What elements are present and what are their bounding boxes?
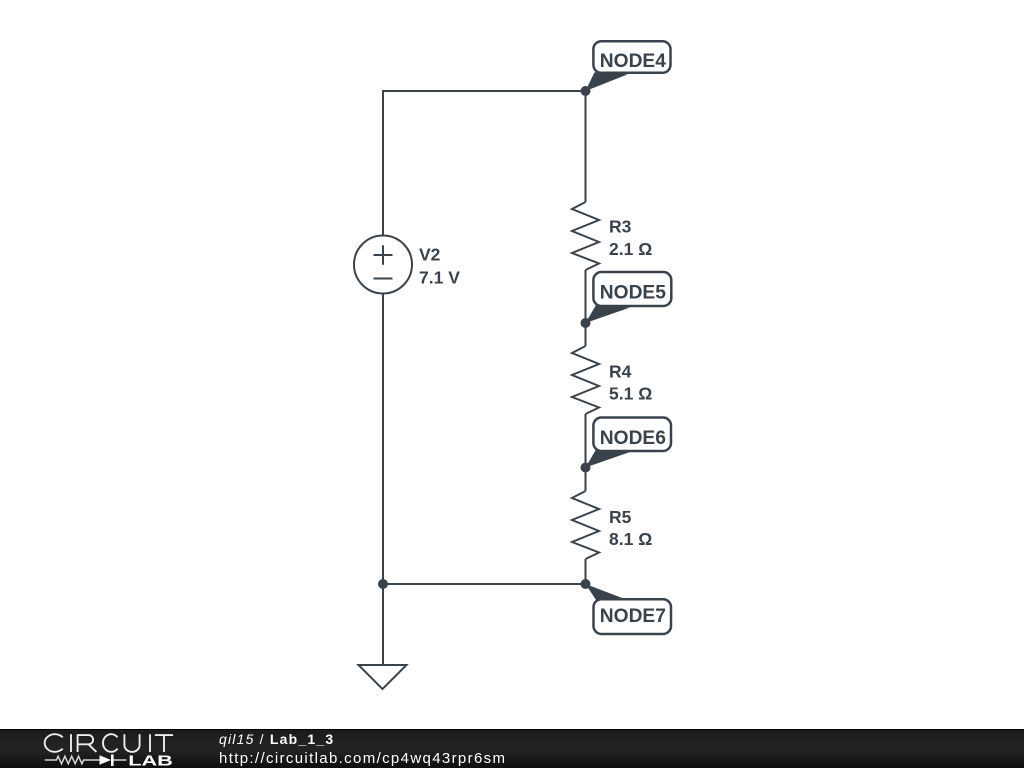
wire right upper (NODE4 to R3) [585, 91, 587, 202]
node dot NODE6 [581, 463, 591, 473]
NODE5 flag box [593, 272, 671, 306]
svg-text:R3: R3 [609, 217, 632, 237]
node dot NODE7 [581, 579, 591, 589]
CircuitLab logo [40, 730, 220, 768]
wire left lower (V2 bottom lead) + bottom horizontal [383, 294, 586, 585]
svg-text:2.1 Ω: 2.1 Ω [609, 239, 652, 259]
footer meta text [219, 732, 506, 766]
resistor R5 zigzag [572, 491, 599, 559]
NODE4 flag pointer [586, 72, 629, 91]
NODE5 flag pointer [586, 305, 631, 323]
V2 plus sign [374, 245, 393, 264]
svg-text:NODE4: NODE4 [600, 51, 666, 72]
NODE6 flag box [593, 418, 671, 452]
svg-text:R5: R5 [609, 507, 632, 527]
svg-text:8.1 Ω: 8.1 Ω [609, 529, 652, 549]
node dot NODE4 [581, 86, 591, 96]
wire R3 to R4 (through NODE5) [585, 270, 587, 346]
svg-text:LAB: LAB [128, 752, 173, 768]
ground symbol triangle [359, 665, 407, 689]
wire R5 to bottom [585, 559, 587, 584]
svg-text:7.1 V: 7.1 V [419, 268, 460, 288]
voltage source V2 circle [354, 236, 412, 294]
svg-text:NODE5: NODE5 [600, 283, 666, 304]
ground symbol stem [382, 584, 384, 665]
footer bar [0, 729, 1024, 768]
svg-text:R4: R4 [609, 362, 632, 382]
wire top horizontal + left upper (V2 top lead) [383, 91, 586, 236]
wire R4 to R5 (through NODE6) [585, 414, 587, 491]
V2 minus sign [374, 278, 393, 280]
resistor R3 zigzag [572, 202, 599, 270]
NODE7 flag pointer [586, 584, 627, 602]
node dot NODE5 [581, 318, 591, 328]
svg-text:5.1 Ω: 5.1 Ω [609, 384, 652, 404]
NODE7 flag box [594, 599, 672, 634]
resistor R4 zigzag [572, 346, 599, 414]
NODE6 flag pointer [586, 450, 631, 468]
svg-text:NODE6: NODE6 [600, 428, 666, 449]
NODE4 flag box [593, 41, 670, 73]
svg-text:V2: V2 [419, 244, 441, 264]
svg-text:NODE7: NODE7 [600, 606, 666, 627]
junction dot bottom left [378, 579, 388, 589]
